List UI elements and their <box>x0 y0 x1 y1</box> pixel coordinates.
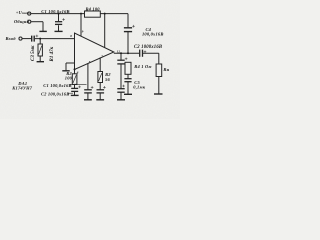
svg-text:C1 100,0x16В: C1 100,0x16В <box>43 83 71 88</box>
svg-text:R1 47к: R1 47к <box>50 46 55 61</box>
svg-text:C1 100,0x16В: C1 100,0x16В <box>41 9 69 14</box>
svg-text:R4 1 Ом: R4 1 Ом <box>134 64 151 69</box>
svg-text:C2 100,0x16В: C2 100,0x16В <box>41 91 69 96</box>
svg-text:56: 56 <box>105 77 110 82</box>
svg-text:R4 100: R4 100 <box>86 7 101 12</box>
svg-text:C3 5мк: C3 5мк <box>31 45 36 61</box>
svg-text:К174УН7: К174УН7 <box>11 85 33 90</box>
svg-text:Общий: Общий <box>14 19 29 24</box>
svg-text:Rн: Rн <box>163 67 169 72</box>
svg-text:12: 12 <box>117 49 121 53</box>
svg-text:+Uпит.: +Uпит. <box>16 10 30 15</box>
svg-text:0,1мк: 0,1мк <box>133 85 145 90</box>
svg-text:100,0x16В: 100,0x16В <box>142 32 164 37</box>
svg-text:Вход: Вход <box>5 36 17 41</box>
svg-text:C2 1000x16В: C2 1000x16В <box>134 45 162 50</box>
svg-text:100: 100 <box>65 76 73 81</box>
